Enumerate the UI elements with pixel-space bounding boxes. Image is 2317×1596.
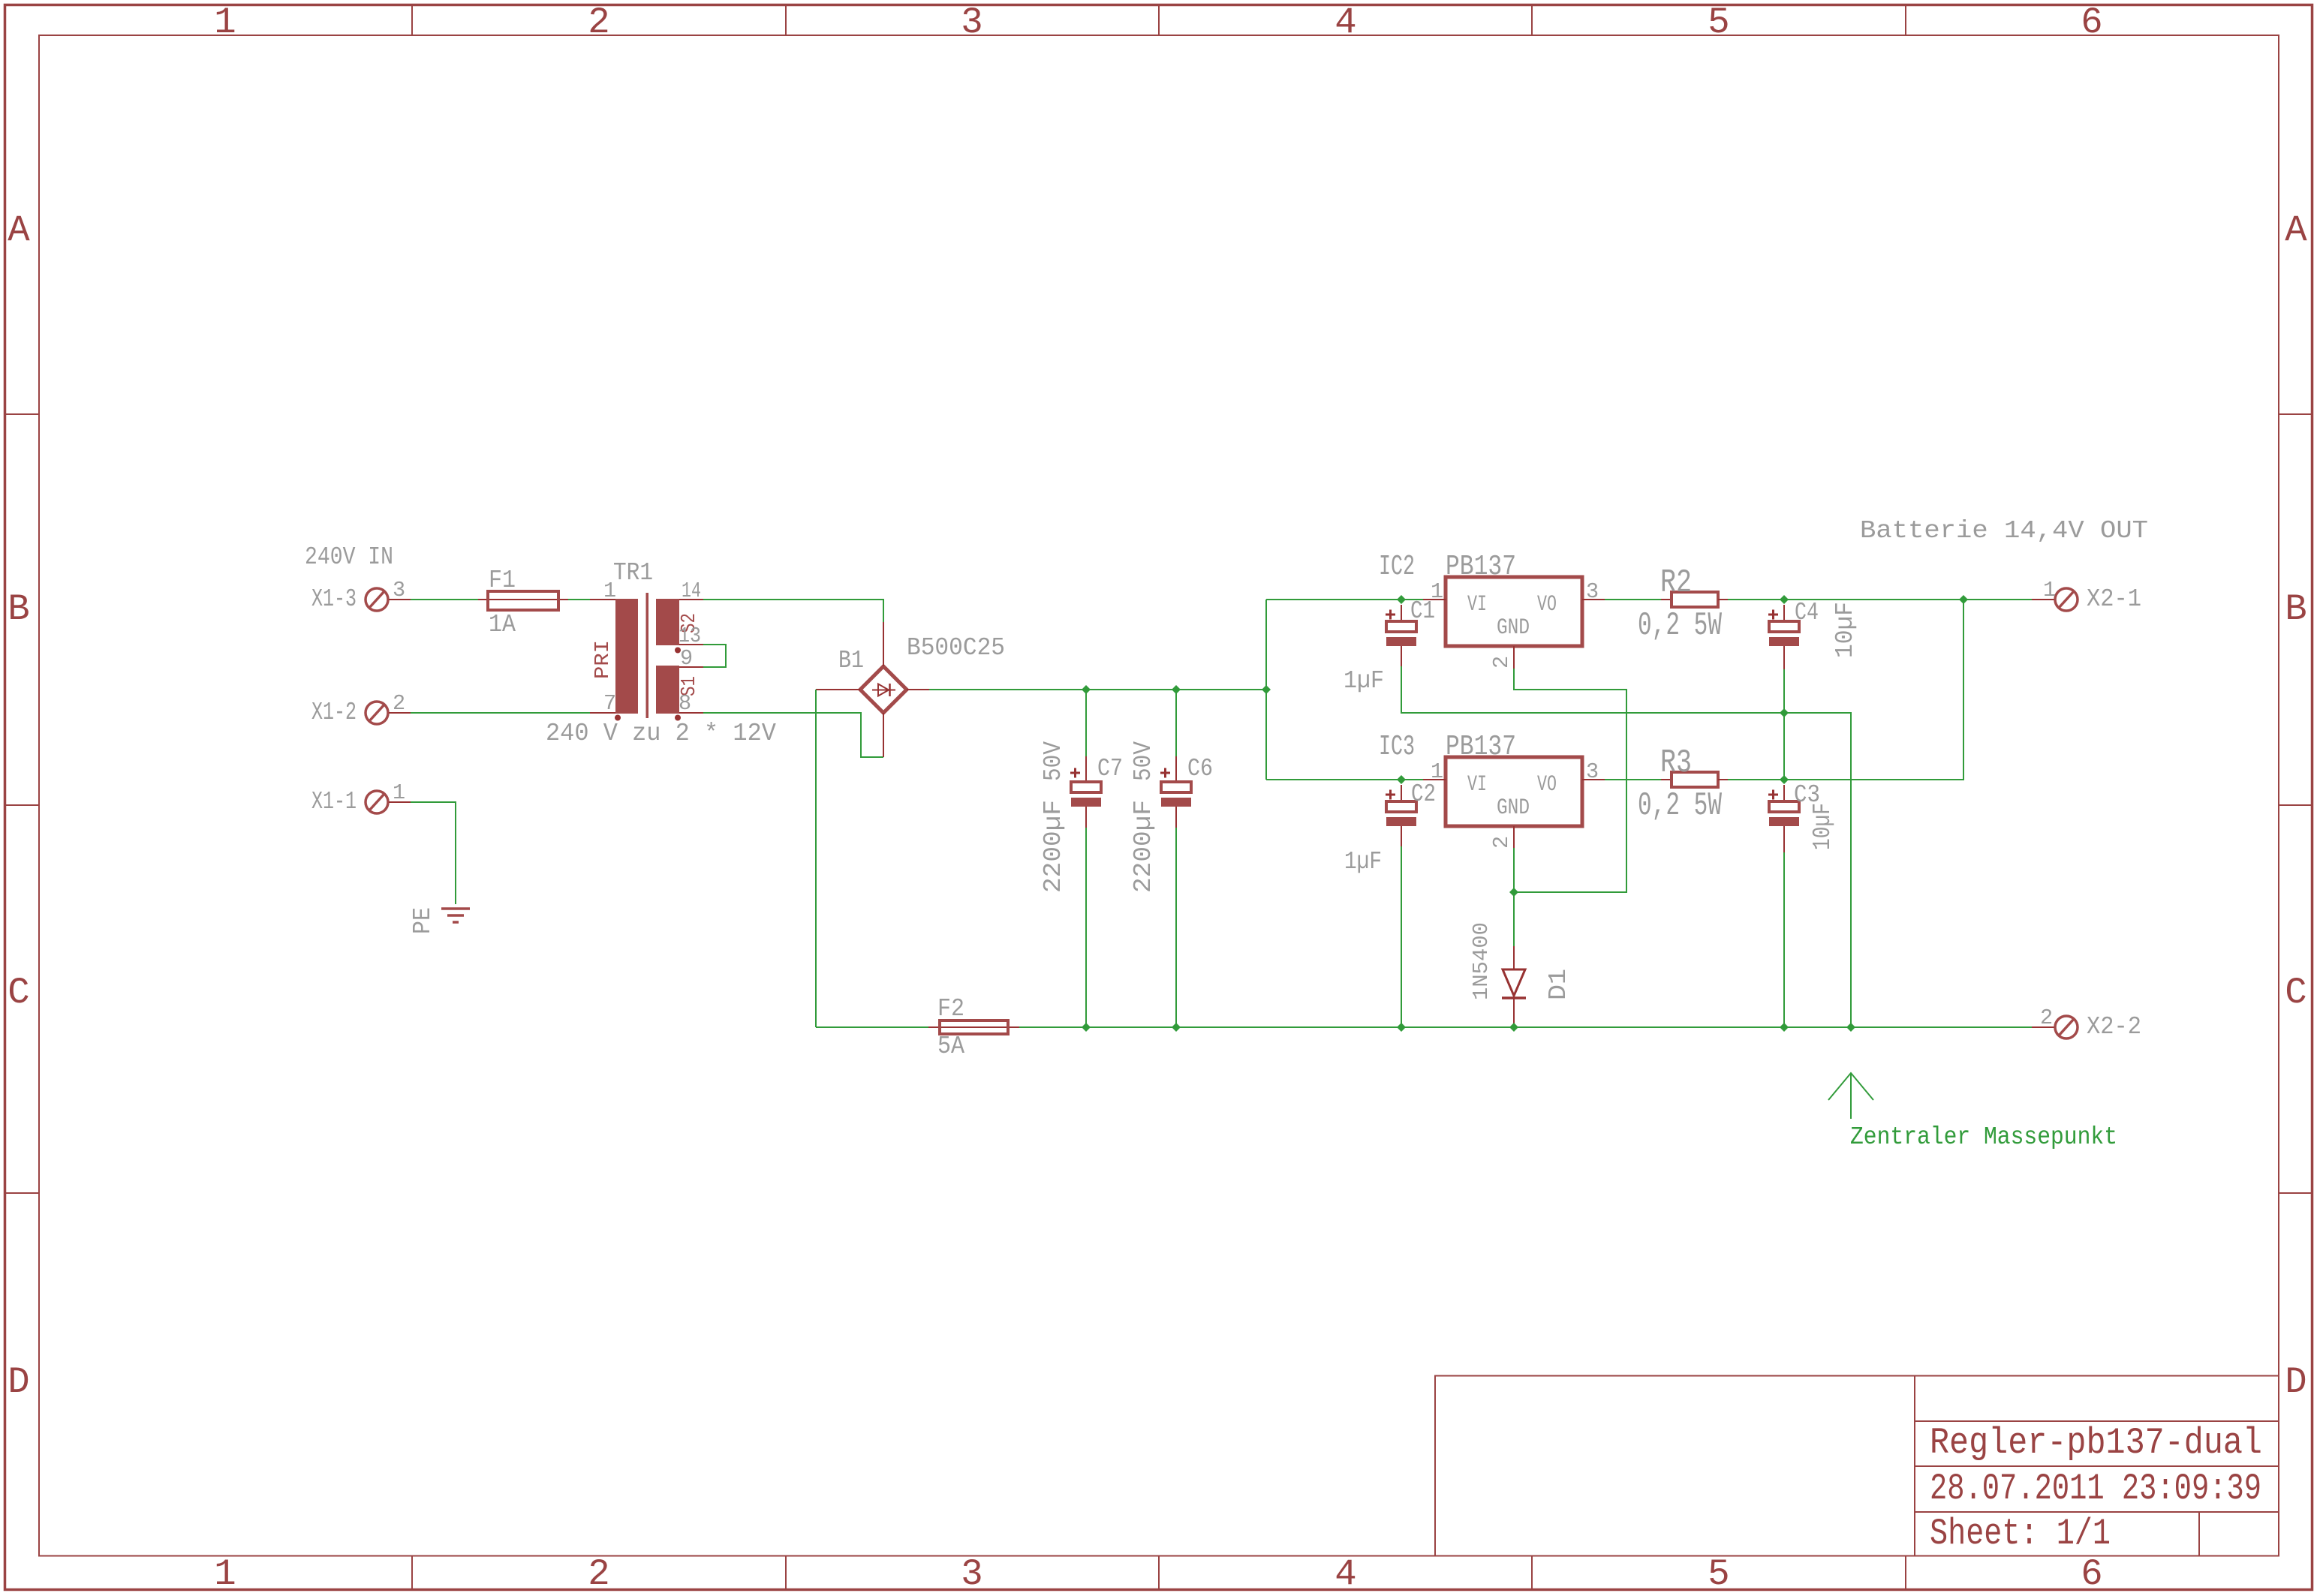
wire TR1 pin 13 to pin 9 jumper — [703, 645, 726, 667]
svg-text:2: 2 — [2040, 1005, 2053, 1030]
wire IC2 GND jog — [1514, 669, 1626, 892]
svg-text:14: 14 — [682, 579, 701, 603]
svg-text:2: 2 — [588, 2, 609, 44]
svg-text:3: 3 — [393, 578, 405, 603]
wire C1 bottom to GND corner — [1401, 666, 1851, 1027]
svg-text:C: C — [2285, 972, 2306, 1014]
svg-text:6: 6 — [2081, 2, 2102, 44]
svg-text:C6: C6 — [1187, 755, 1213, 783]
junction rail C7 — [1082, 1023, 1091, 1032]
svg-text:C7: C7 — [1097, 755, 1123, 783]
svg-text:7: 7 — [603, 691, 616, 716]
wire C3 bottom to rail — [1783, 852, 1785, 1027]
svg-text:B500C25: B500C25 — [907, 634, 1005, 662]
wire F1 to TR1 pin 1 — [568, 599, 590, 600]
svg-text:PRI: PRI — [592, 640, 615, 679]
wire IC3 VO to R3 — [1605, 779, 1661, 780]
svg-text:R3: R3 — [1660, 744, 1692, 782]
junction rail GND corner — [1846, 1023, 1855, 1032]
svg-text:B: B — [2285, 588, 2306, 630]
svg-text:Zentraler Massepunkt: Zentraler Massepunkt — [1850, 1123, 2117, 1151]
wire X1-3 to F1 — [411, 599, 478, 600]
ground PE — [441, 909, 470, 922]
svg-text:PB137: PB137 — [1446, 731, 1516, 763]
capacitor C6 — [1160, 690, 1191, 1027]
resistor R2 — [1661, 592, 1728, 607]
svg-text:2200µF: 2200µF — [1040, 800, 1067, 893]
regulator IC2 — [1423, 577, 1605, 669]
fuse F2 — [928, 1020, 1019, 1034]
svg-text:PB137: PB137 — [1446, 551, 1516, 583]
svg-text:1µF: 1µF — [1344, 667, 1384, 695]
svg-text:X1-2: X1-2 — [311, 699, 357, 726]
svg-text:X2-1: X2-1 — [2087, 585, 2141, 613]
svg-text:C2: C2 — [1411, 780, 1436, 808]
wire GND node to D1 — [1513, 892, 1515, 946]
svg-text:C4: C4 — [1795, 599, 1819, 627]
svg-text:50V: 50V — [1130, 741, 1157, 781]
svg-text:1: 1 — [603, 579, 616, 603]
svg-text:VI: VI — [1467, 772, 1487, 798]
svg-text:Regler-pb137-dual: Regler-pb137-dual — [1930, 1422, 2262, 1464]
svg-text:3: 3 — [961, 1553, 982, 1595]
junction C3 top — [1780, 775, 1789, 784]
svg-text:2200µF: 2200µF — [1130, 800, 1157, 893]
junction rail C2 — [1397, 1023, 1406, 1032]
bridge rectifier B1 — [816, 622, 929, 757]
capacitor C1 — [1386, 605, 1416, 666]
svg-text:1: 1 — [214, 2, 236, 44]
capacitor C7 — [1070, 690, 1101, 1027]
svg-text:B1: B1 — [838, 647, 864, 675]
connector X2-2 — [2032, 1016, 2078, 1038]
svg-text:10µF: 10µF — [1831, 602, 1859, 658]
svg-text:R2: R2 — [1660, 564, 1692, 602]
wire feed to IC2 and IC3 inputs — [1265, 600, 1267, 780]
bottom rail wire — [816, 1026, 928, 1028]
svg-text:0,2 5W: 0,2 5W — [1638, 787, 1722, 825]
junction C2 top — [1397, 775, 1406, 784]
svg-text:A: A — [2285, 209, 2307, 251]
svg-text:1: 1 — [393, 780, 405, 805]
svg-text:10µF: 10µF — [1809, 803, 1837, 850]
wire IC2 VO to R2 — [1605, 599, 1661, 600]
TR1 pin stubs — [590, 600, 703, 713]
annotation arrow Zentraler Massepunkt — [1828, 1073, 1873, 1119]
svg-text:1N5400: 1N5400 — [1469, 922, 1494, 1000]
svg-text:3: 3 — [1586, 579, 1599, 604]
svg-text:2: 2 — [1489, 656, 1514, 669]
wire IC3 input row — [1266, 779, 1423, 780]
svg-text:2: 2 — [1489, 836, 1514, 849]
junction C4 top — [1780, 595, 1789, 604]
TR1 polarity dots — [615, 648, 681, 721]
svg-text:2: 2 — [588, 1553, 609, 1595]
wire B1 plus output rail — [929, 689, 1266, 690]
fuse F1 — [478, 591, 568, 610]
regulator IC3 — [1423, 757, 1605, 848]
connector X1-2 — [366, 702, 411, 724]
transformer TR1 — [615, 593, 679, 718]
wire IC2 input row — [1266, 599, 1423, 600]
junction rail C3 — [1780, 1023, 1789, 1032]
svg-text:13: 13 — [679, 624, 701, 648]
wire R2 to X2-1 — [1728, 599, 2032, 600]
svg-text:Sheet: 1/1: Sheet: 1/1 — [1930, 1513, 2111, 1555]
junction rail C6 — [1172, 1023, 1181, 1032]
svg-text:C1: C1 — [1410, 597, 1435, 625]
svg-text:4: 4 — [1335, 2, 1356, 44]
svg-text:PE: PE — [409, 907, 437, 934]
svg-text:9: 9 — [680, 646, 693, 671]
capacitor C3 — [1768, 785, 1799, 852]
wire C2 bottom to rail — [1401, 846, 1402, 1027]
wire X1-2 to TR1 pin 7 — [411, 712, 590, 714]
svg-text:8: 8 — [679, 691, 691, 716]
svg-text:3: 3 — [961, 2, 982, 44]
svg-text:1: 1 — [214, 1553, 236, 1595]
svg-text:F1: F1 — [489, 567, 516, 594]
wire TR1 pin 14 to B1 AC1 — [703, 600, 883, 622]
svg-text:5: 5 — [1708, 1553, 1729, 1595]
connector X1-1 — [366, 791, 411, 813]
junction at B1 rail x1687 — [1262, 685, 1271, 694]
svg-text:5: 5 — [1708, 2, 1729, 44]
connector X2-1 — [2032, 588, 2078, 611]
junction C1 top — [1397, 595, 1406, 604]
svg-text:GND: GND — [1497, 615, 1530, 641]
svg-text:Batterie 14,4V OUT: Batterie 14,4V OUT — [1860, 517, 2148, 545]
svg-text:2: 2 — [393, 691, 405, 716]
svg-text:0,2 5W: 0,2 5W — [1638, 607, 1722, 645]
junction C6 top — [1172, 685, 1181, 694]
svg-text:6: 6 — [2081, 1553, 2102, 1595]
svg-text:X1-3: X1-3 — [311, 585, 357, 613]
resistor R3 — [1661, 772, 1728, 787]
svg-text:3: 3 — [1586, 759, 1599, 784]
svg-text:1A: 1A — [489, 611, 516, 639]
svg-text:240 V zu 2 * 12V: 240 V zu 2 * 12V — [546, 720, 776, 747]
svg-text:240V IN: 240V IN — [305, 543, 393, 571]
junction C4 bottom — [1780, 708, 1789, 717]
svg-text:C: C — [8, 972, 29, 1014]
connector X1-3 — [366, 588, 411, 611]
svg-text:VI: VI — [1467, 592, 1487, 618]
wire B1 minus to bottom rail — [815, 690, 817, 1027]
bottom rail wire right of F2 — [1019, 1026, 2032, 1028]
junction IC3 GND node — [1509, 888, 1518, 897]
svg-text:B: B — [8, 588, 29, 630]
wire TR1 pin 8 to B1 AC2 — [703, 713, 883, 757]
svg-text:D: D — [2285, 1361, 2306, 1403]
wire X1-1 to PE — [411, 802, 456, 904]
svg-text:IC3: IC3 — [1379, 731, 1415, 763]
svg-text:28.07.2011 23:09:39: 28.07.2011 23:09:39 — [1930, 1468, 2261, 1510]
svg-text:F2: F2 — [937, 995, 964, 1023]
svg-text:4: 4 — [1335, 1553, 1356, 1595]
junction C7 top — [1082, 685, 1091, 694]
svg-text:TR1: TR1 — [613, 559, 653, 587]
wire C4 bottom down to R3 row — [1783, 669, 1785, 780]
svg-text:X2-2: X2-2 — [2087, 1013, 2141, 1041]
svg-text:50V: 50V — [1040, 741, 1067, 781]
junction output join — [1959, 595, 1968, 604]
svg-text:X1-1: X1-1 — [311, 788, 357, 816]
svg-text:5A: 5A — [937, 1032, 964, 1060]
diode D1 — [1502, 946, 1526, 1027]
capacitor C2 — [1386, 785, 1416, 846]
capacitor C4 — [1768, 605, 1799, 669]
svg-text:GND: GND — [1497, 795, 1530, 821]
svg-text:D: D — [8, 1361, 29, 1403]
svg-text:VO: VO — [1537, 592, 1557, 618]
svg-text:1µF: 1µF — [1344, 848, 1382, 876]
wire R3 output up to join — [1728, 600, 1963, 780]
svg-text:D1: D1 — [1545, 969, 1572, 1000]
svg-text:1: 1 — [2043, 578, 2056, 603]
svg-text:VO: VO — [1537, 772, 1557, 798]
svg-text:A: A — [8, 209, 30, 251]
svg-text:IC2: IC2 — [1379, 551, 1415, 583]
wire IC3 GND down — [1513, 848, 1515, 892]
junction rail D1 — [1509, 1023, 1518, 1032]
